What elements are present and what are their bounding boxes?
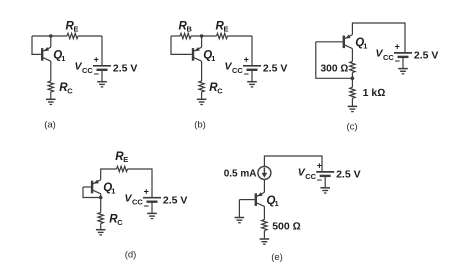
wire: (a) RE to VCC corner <box>78 35 102 37</box>
svg-text:2.5 V: 2.5 V <box>263 63 288 75</box>
svg-text:1: 1 <box>363 41 367 50</box>
ground (a) below RC <box>46 99 56 104</box>
wire: (d) base lead <box>83 186 91 188</box>
wire: (e) 500 ohm to ground <box>263 231 265 239</box>
ground (c) below battery <box>398 69 408 74</box>
wire: (a) feedback base loop <box>32 36 41 54</box>
svg-text:−: − <box>395 56 400 66</box>
ground (d) below RC <box>96 230 106 235</box>
wire: (c) node segment <box>351 73 353 88</box>
svg-text:CC: CC <box>132 198 143 207</box>
resistor RE (b) <box>217 33 228 38</box>
wire: (b) top-left to RB <box>171 35 180 37</box>
transistor Q1 (d) <box>92 180 101 194</box>
voltage source VCC battery (d) <box>143 198 161 202</box>
resistor RE (d) <box>117 166 128 171</box>
svg-text:0.5 mA: 0.5 mA <box>224 169 257 180</box>
wire: (d) RE to battery + <box>128 169 153 198</box>
svg-text:+: + <box>317 161 322 171</box>
wire: (d) battery - to ground <box>151 202 153 214</box>
wire: (c) collector to 300 ohm <box>351 49 353 62</box>
svg-text:CC: CC <box>305 172 316 181</box>
svg-text:C: C <box>217 86 223 95</box>
voltage source VCC battery (e) <box>316 172 334 176</box>
wire: (c) 1k to ground <box>351 98 353 106</box>
ground (c) below 1 kohm <box>348 106 358 111</box>
wire: (e) base lead <box>239 199 254 201</box>
svg-text:−: − <box>317 175 322 185</box>
wire: (c) emitter up over to battery <box>352 23 405 53</box>
wire: (d) base-to-collector loop <box>83 187 101 198</box>
svg-text:(a): (a) <box>44 120 56 131</box>
svg-text:(b): (b) <box>194 120 206 131</box>
svg-text:−: − <box>94 69 99 79</box>
wire: (d) emitter up to RE <box>101 169 117 180</box>
svg-text:−: − <box>144 201 149 211</box>
current source 0.5 mA (e) <box>258 166 271 179</box>
wire: (d) RC to ground <box>100 224 102 230</box>
wire: (e) base down to ground <box>238 200 240 218</box>
svg-text:(d): (d) <box>125 250 137 261</box>
svg-text:CC: CC <box>82 66 93 75</box>
svg-text:2.5 V: 2.5 V <box>414 50 439 62</box>
wire: (c) battery - to ground <box>402 57 404 69</box>
wire: (c) base lead <box>316 41 343 43</box>
svg-text:300 Ω: 300 Ω <box>321 63 349 74</box>
wire: (e) source top over to battery <box>264 156 322 172</box>
junction node (a) emitter/base tie <box>49 34 53 38</box>
resistor RC (b) <box>199 81 204 92</box>
svg-text:1: 1 <box>211 54 215 63</box>
voltage source VCC battery (c) <box>394 53 412 57</box>
wire: (e) collector to 500 ohm <box>263 206 265 219</box>
wire: (a) top-left to RE <box>32 35 67 37</box>
wire: (a) RC to ground <box>50 92 52 99</box>
wire: (b) battery - to ground <box>251 70 253 82</box>
wire: (b) RB to RE <box>191 35 217 37</box>
svg-text:(c): (c) <box>346 122 357 133</box>
svg-text:CC: CC <box>232 66 243 75</box>
transistor Q1 (c) <box>344 34 353 48</box>
svg-text:+: + <box>244 55 249 65</box>
resistor RC (a) <box>48 81 53 92</box>
wire: (a) emitter vertical <box>50 36 52 47</box>
wire: (e) battery - to ground <box>324 176 326 188</box>
ground (e) at base <box>235 218 245 223</box>
resistor 300 ohm (c) <box>350 62 355 73</box>
svg-text:1: 1 <box>111 186 115 195</box>
svg-text:(e): (e) <box>271 252 283 263</box>
ground (e) below 500 ohm <box>260 239 270 244</box>
wire: (a) right vertical to battery + <box>101 36 103 66</box>
svg-text:B: B <box>187 25 193 34</box>
voltage source VCC battery (b) <box>243 66 261 70</box>
svg-text:1 kΩ: 1 kΩ <box>363 87 386 99</box>
voltage source VCC battery (a) <box>93 66 111 70</box>
wire: (d) collector down to RC <box>100 194 102 213</box>
svg-text:2.5 V: 2.5 V <box>336 169 361 181</box>
svg-text:+: + <box>94 55 99 65</box>
junction node (d) base-collector tie <box>99 196 103 200</box>
ground (b) below RC <box>197 99 207 104</box>
transistor Q1 (a) <box>42 47 51 61</box>
junction node (c) between resistors <box>351 77 355 81</box>
svg-text:1: 1 <box>61 54 65 63</box>
transistor Q1 (b) <box>193 47 202 61</box>
wire: (a) collector down to RC <box>50 61 52 81</box>
svg-text:2.5 V: 2.5 V <box>113 63 138 75</box>
ground (e) below battery <box>320 188 330 193</box>
svg-text:1: 1 <box>275 199 279 208</box>
svg-text:+: + <box>144 186 149 196</box>
resistor 500 ohm (e) <box>262 220 267 231</box>
resistor RC (d) <box>98 213 103 224</box>
svg-text:C: C <box>117 218 123 227</box>
wire: (b) RE to VCC corner <box>228 35 253 37</box>
svg-text:−: − <box>244 69 249 79</box>
svg-text:+: + <box>395 42 400 52</box>
svg-text:500 Ω: 500 Ω <box>272 220 301 232</box>
wire: (a) battery - to ground <box>101 70 103 82</box>
resistor RE (a) <box>67 33 78 38</box>
svg-text:E: E <box>74 25 79 34</box>
svg-text:E: E <box>123 155 128 164</box>
svg-text:CC: CC <box>383 53 394 62</box>
resistor RB (b) <box>180 33 191 38</box>
ground (d) below battery <box>147 213 157 218</box>
wire: (b) emitter vertical <box>201 36 203 47</box>
wire: (b) collector down to RC <box>201 61 203 81</box>
svg-text:2.5 V: 2.5 V <box>163 195 188 207</box>
ground (a) below battery <box>97 82 107 87</box>
resistor 1 kohm (c) <box>350 87 355 98</box>
transistor Q1 (e) <box>256 192 265 206</box>
wire: (b) RC to ground <box>201 92 203 99</box>
wire: (b) right vertical to battery + <box>251 36 253 66</box>
wire: (b) base loop <box>171 36 192 54</box>
ground (b) below battery <box>247 82 257 87</box>
wire: (c) base-to-node loop <box>316 42 353 79</box>
junction node (b) emitter tie <box>200 34 204 38</box>
wire: (e) source to emitter <box>263 179 265 192</box>
svg-text:C: C <box>67 86 73 95</box>
svg-text:E: E <box>224 25 229 34</box>
